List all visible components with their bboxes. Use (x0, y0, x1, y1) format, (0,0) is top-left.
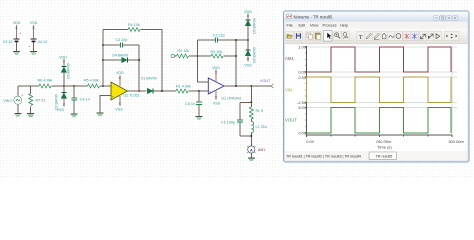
svg-text:R5 4.99k: R5 4.99k (84, 79, 99, 83)
node clamp tap (247, 39, 249, 41)
toolbar button zoom tool (342, 32, 350, 41)
feedback left vertical wire (102, 30, 104, 87)
diode D5 (244, 10, 256, 40)
title bar (284, 12, 469, 22)
capacitor C2 (198, 33, 249, 42)
svg-text:VDD: VDD (13, 21, 21, 25)
node C4 junction (73, 85, 75, 87)
svg-text:VDD: VDD (116, 71, 124, 75)
svg-text:V4 12: V4 12 (38, 40, 48, 44)
ground of VIN (14, 114, 21, 117)
svg-text:D6 BAV99: D6 BAV99 (252, 47, 256, 63)
node R2 R3 junction (197, 55, 199, 57)
ammeter AM1 (247, 146, 265, 158)
toolbar button save (294, 32, 302, 41)
generator VIN (3, 86, 23, 113)
svg-text:VDD: VDD (244, 10, 252, 14)
svg-text:5.01: 5.01 (298, 105, 306, 110)
capacitor C1 (221, 102, 243, 136)
VOUT pin (260, 79, 274, 88)
svg-text:Time (s): Time (s) (377, 144, 392, 149)
inner feedback vertical wire (138, 45, 140, 91)
svg-text:+: + (209, 90, 211, 94)
diode D4 (103, 54, 139, 63)
ground of V3 (13, 52, 20, 55)
load top wire (240, 86, 251, 102)
input terminal of R2 (171, 54, 174, 57)
svg-text:AM1: AM1 (285, 56, 294, 61)
node inverting input U2 (102, 85, 104, 87)
svg-text:R1 4.99k: R1 4.99k (176, 85, 191, 89)
toolbar button home (380, 32, 388, 41)
toolbar button play (434, 32, 442, 41)
voltage source V4 (29, 21, 47, 51)
toolbar button cursor pressed (324, 31, 332, 41)
svg-text:+: + (20, 31, 22, 35)
diode D2 (54, 86, 66, 112)
U1 VSS stub (213, 90, 221, 106)
toolbar button interp blue (411, 32, 419, 41)
svg-text:VDD: VDD (212, 66, 220, 70)
x axis (307, 135, 453, 137)
svg-text:VSS: VSS (115, 108, 123, 112)
svg-text:R2 10k: R2 10k (178, 49, 190, 53)
svg-text:VIN 0: VIN 0 (3, 99, 12, 103)
window frame (284, 11, 470, 162)
svg-text:C3 22p: C3 22p (116, 38, 128, 42)
node after D1 (161, 90, 163, 92)
svg-text:C5 1n: C5 1n (185, 102, 195, 106)
resistor R3 (198, 50, 237, 58)
voltage source V3 (3, 21, 22, 51)
svg-text:C4 1n: C4 1n (80, 98, 90, 102)
wire U2 output (128, 90, 147, 92)
svg-text:R4 10k: R4 10k (128, 23, 140, 27)
svg-text:View: View (310, 23, 319, 28)
toolbar button pen1 (365, 32, 373, 41)
toolbar button copy (306, 32, 314, 41)
toolbar button curve (387, 32, 395, 41)
svg-text:+: + (21, 93, 23, 97)
ground of R7 (27, 114, 34, 118)
y axis (305, 46, 307, 135)
svg-text:RL 5: RL 5 (256, 109, 264, 113)
svg-text:VDD: VDD (59, 55, 67, 59)
wire main input net (18, 85, 39, 87)
inductor L1 (251, 122, 266, 137)
U2 VDD stub (116, 71, 124, 86)
svg-text:A: A (250, 147, 253, 152)
svg-text:VIN: VIN (285, 88, 292, 93)
capacitor C5 (185, 91, 202, 116)
node diode junction (63, 85, 65, 87)
plot area (285, 44, 468, 151)
svg-text:D1 BAV99: D1 BAV99 (141, 77, 157, 81)
svg-text:R7 51: R7 51 (36, 99, 46, 103)
node load bottom (250, 135, 252, 137)
svg-text:0.00: 0.00 (298, 131, 307, 136)
svg-text:L1 25u: L1 25u (256, 125, 267, 129)
op-amp U2 TL051 (111, 82, 140, 100)
trace AM1 (307, 47, 451, 72)
svg-text:+: + (112, 95, 114, 99)
U2 non-inverting input wire to ground (100, 96, 111, 113)
node load tap (250, 85, 252, 87)
svg-text:2.50: 2.50 (297, 75, 307, 80)
svg-text:TR result1 | TR result2 | TR r: TR result1 | TR result2 | TR result3 | T… (286, 155, 361, 159)
svg-text:-: - (112, 85, 113, 89)
svg-text:D2 BAV99: D2 BAV99 (54, 94, 58, 110)
svg-text:C1 100p: C1 100p (221, 121, 235, 125)
ground of V4 (30, 52, 37, 55)
diode D6 (244, 40, 256, 68)
svg-text:D5 BAV99: D5 BAV99 (252, 18, 256, 34)
svg-text:Noname - TR result5: Noname - TR result5 (294, 14, 333, 19)
svg-text:-: - (210, 81, 211, 85)
svg-text:Help: Help (340, 23, 348, 28)
toolbar button scale (419, 32, 427, 41)
svg-text:File: File (287, 23, 293, 28)
capacitor C3 (103, 38, 139, 48)
diode D3 (59, 55, 70, 86)
toolbar button text (357, 32, 365, 41)
svg-text:R6 4.99k: R6 4.99k (38, 79, 53, 83)
title bar icon (287, 14, 292, 19)
wire U1 output to VOUT (224, 85, 272, 87)
menu bar (285, 22, 468, 29)
toolbar button pen2 (372, 32, 380, 41)
svg-text:V3 12: V3 12 (3, 40, 13, 44)
svg-text:VSS: VSS (244, 64, 252, 68)
toolbar button paste (314, 32, 322, 41)
svg-text:U2 TL051: U2 TL051 (124, 93, 140, 97)
svg-text:T: T (359, 34, 363, 41)
node U1 output (235, 85, 237, 87)
svg-text:AM1: AM1 (258, 148, 266, 152)
resistor R6 (38, 79, 53, 89)
trace VIN (307, 77, 451, 102)
node R1 C5 junction (198, 90, 200, 92)
svg-text:0.00: 0.00 (298, 69, 307, 74)
svg-text:D3 BAV99: D3 BAV99 (66, 63, 70, 79)
ground of U2 non-inverting input (97, 113, 104, 116)
window buttons (433, 16, 458, 20)
node U2 output (138, 90, 140, 92)
svg-text:+: + (29, 44, 31, 48)
U1 inverting input wire (198, 40, 209, 82)
toolbar button circle (394, 32, 402, 41)
resistor RL (249, 102, 263, 121)
tab bar (285, 151, 468, 161)
node C3 left (102, 44, 104, 46)
toolbar (285, 29, 468, 44)
svg-text:150.00m: 150.00m (376, 139, 392, 144)
resistor R2 (175, 49, 198, 58)
toolbar spinner (444, 32, 459, 41)
toolbar button interp red (403, 32, 411, 41)
U2 VSS stub (115, 96, 123, 112)
svg-text:0.00: 0.00 (306, 139, 315, 144)
svg-text:VOUT: VOUT (260, 79, 271, 83)
U1 VDD stub (212, 66, 220, 82)
capacitor C4 (71, 86, 90, 114)
svg-text:TR result5: TR result5 (376, 155, 393, 159)
trace VOUT (307, 107, 451, 133)
svg-text:VOUT: VOUT (285, 118, 297, 123)
ground of AM1 (248, 158, 255, 161)
toolbar button zoom in (333, 32, 341, 41)
svg-text:C2 22p: C2 22p (213, 33, 225, 37)
resistor R7 (29, 86, 46, 113)
node D4 right (138, 59, 140, 61)
resistor R5 (74, 79, 111, 89)
ground of C5 (196, 117, 203, 120)
svg-text:D4 BAV99: D4 BAV99 (113, 54, 129, 58)
WINDOW (284, 11, 470, 162)
svg-text:1.00: 1.00 (298, 45, 307, 50)
svg-text:U1 OPA343: U1 OPA343 (222, 97, 241, 101)
svg-text:300.00m: 300.00m (448, 139, 464, 144)
toolbar button marker (427, 32, 435, 41)
node D4 left (102, 59, 104, 61)
svg-text:Process: Process (323, 23, 337, 28)
toolbar button open (286, 32, 294, 41)
ground of C4 (71, 114, 78, 117)
svg-text:Edit: Edit (299, 23, 307, 28)
resistor R1 (176, 85, 208, 93)
svg-text:VSS: VSS (30, 21, 38, 25)
op-amp U1 OPA343 (208, 78, 241, 101)
load bottom wire (240, 136, 251, 146)
wire R6 to diode node (51, 85, 74, 87)
resistor R4 (103, 23, 162, 91)
node load top (250, 101, 252, 103)
svg-text:VSS: VSS (213, 101, 221, 105)
axis labels (297, 45, 465, 150)
node C2 tap (235, 39, 237, 41)
svg-text:R3 10k: R3 10k (211, 50, 223, 54)
U1 output right vertical wire (235, 40, 237, 86)
node R3 right (235, 55, 237, 57)
plot gridlines (307, 47, 458, 135)
diode D1 (141, 77, 176, 94)
